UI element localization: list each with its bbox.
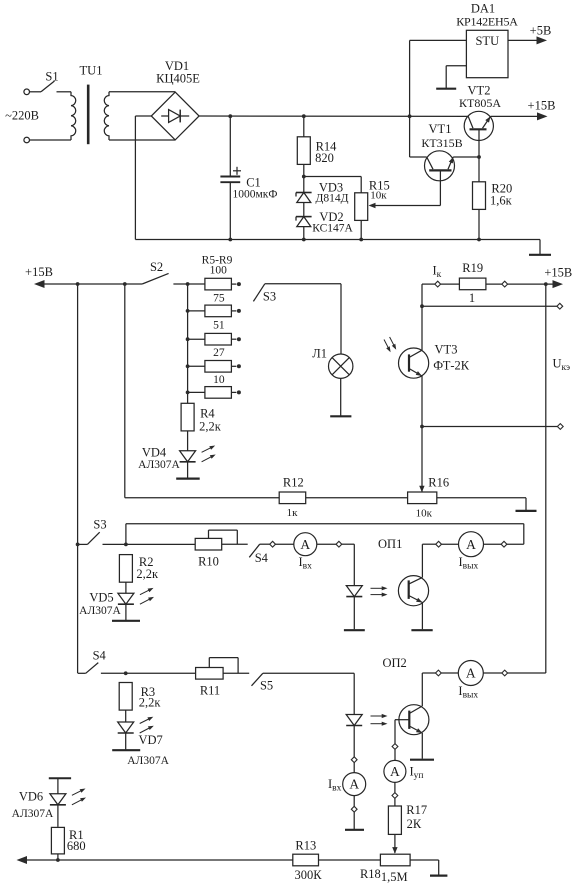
svg-text:10к: 10к (416, 508, 433, 520)
svg-text:VD4: VD4 (142, 446, 167, 460)
svg-text:R11: R11 (200, 684, 220, 698)
svg-text:~220В: ~220В (5, 109, 39, 123)
svg-text:51: 51 (213, 320, 225, 332)
svg-text:АЛ307А: АЛ307А (138, 459, 180, 471)
svg-text:+15В: +15В (544, 266, 572, 280)
svg-text:+15В: +15В (528, 99, 556, 113)
svg-text:А: А (300, 537, 310, 552)
svg-text:1,6к: 1,6к (490, 194, 513, 208)
svg-text:2,2к: 2,2к (136, 567, 159, 581)
svg-text:ФТ-2К: ФТ-2К (433, 358, 470, 372)
svg-text:S1: S1 (45, 70, 58, 84)
svg-text:VD5: VD5 (89, 591, 113, 605)
svg-text:Д814Д: Д814Д (316, 192, 349, 204)
svg-text:А: А (466, 537, 476, 552)
svg-text:1: 1 (469, 291, 475, 305)
svg-text:10: 10 (213, 374, 225, 386)
svg-text:300К: 300К (295, 868, 323, 882)
svg-text:ОП1: ОП1 (378, 537, 402, 551)
svg-text:VD6: VD6 (19, 790, 43, 804)
svg-text:S2: S2 (150, 260, 163, 274)
svg-text:АЛ307А: АЛ307А (12, 808, 54, 820)
svg-text:S4: S4 (255, 551, 269, 565)
svg-text:DA1: DA1 (471, 2, 495, 16)
svg-text:680: 680 (67, 839, 86, 853)
svg-text:+5В: +5В (530, 24, 552, 38)
svg-text:VT3: VT3 (435, 343, 458, 357)
svg-text:+15В: +15В (25, 265, 53, 279)
svg-text:STU: STU (475, 34, 499, 48)
svg-text:R12: R12 (283, 476, 304, 490)
svg-text:КЦ405Е: КЦ405Е (156, 72, 200, 86)
svg-text:S4: S4 (93, 649, 107, 663)
svg-text:R19: R19 (462, 261, 483, 275)
svg-text:100: 100 (210, 265, 228, 277)
svg-text:10к: 10к (370, 189, 387, 201)
svg-text:2,2к: 2,2к (199, 420, 222, 434)
svg-text:75: 75 (213, 292, 225, 304)
svg-text:R18: R18 (360, 867, 381, 881)
svg-text:VT1: VT1 (429, 122, 452, 136)
svg-text:820: 820 (315, 151, 334, 165)
svg-text:АЛ307А: АЛ307А (79, 605, 121, 617)
svg-text:ОП2: ОП2 (382, 656, 406, 670)
svg-text:S3: S3 (263, 290, 276, 304)
svg-text:А: А (349, 777, 359, 792)
svg-text:1к: 1к (287, 507, 299, 519)
svg-text:S3: S3 (93, 518, 106, 532)
svg-text:АЛ307А: АЛ307А (127, 755, 169, 767)
svg-text:А: А (390, 764, 400, 779)
svg-text:R16: R16 (428, 476, 449, 490)
svg-text:А: А (466, 666, 476, 681)
svg-text:1000мкФ: 1000мкФ (233, 189, 278, 201)
svg-text:VD7: VD7 (138, 733, 162, 747)
svg-text:R17: R17 (406, 803, 427, 817)
svg-text:R10: R10 (198, 555, 219, 569)
svg-text:Л1: Л1 (312, 347, 327, 361)
svg-text:R13: R13 (295, 839, 316, 853)
svg-text:TU1: TU1 (80, 64, 103, 78)
svg-text:R4: R4 (200, 407, 215, 421)
svg-text:КТ315В: КТ315В (421, 136, 462, 150)
svg-text:2К: 2К (407, 817, 422, 831)
svg-text:C1: C1 (246, 175, 261, 189)
svg-text:S5: S5 (260, 679, 273, 693)
svg-text:КТ805А: КТ805А (459, 96, 501, 110)
svg-text:КС147А: КС147А (312, 223, 353, 235)
svg-text:КР142ЕН5А: КР142ЕН5А (456, 15, 518, 29)
svg-text:1,5М: 1,5М (381, 870, 408, 884)
svg-text:27: 27 (213, 347, 225, 359)
svg-text:2,2к: 2,2к (139, 695, 162, 709)
